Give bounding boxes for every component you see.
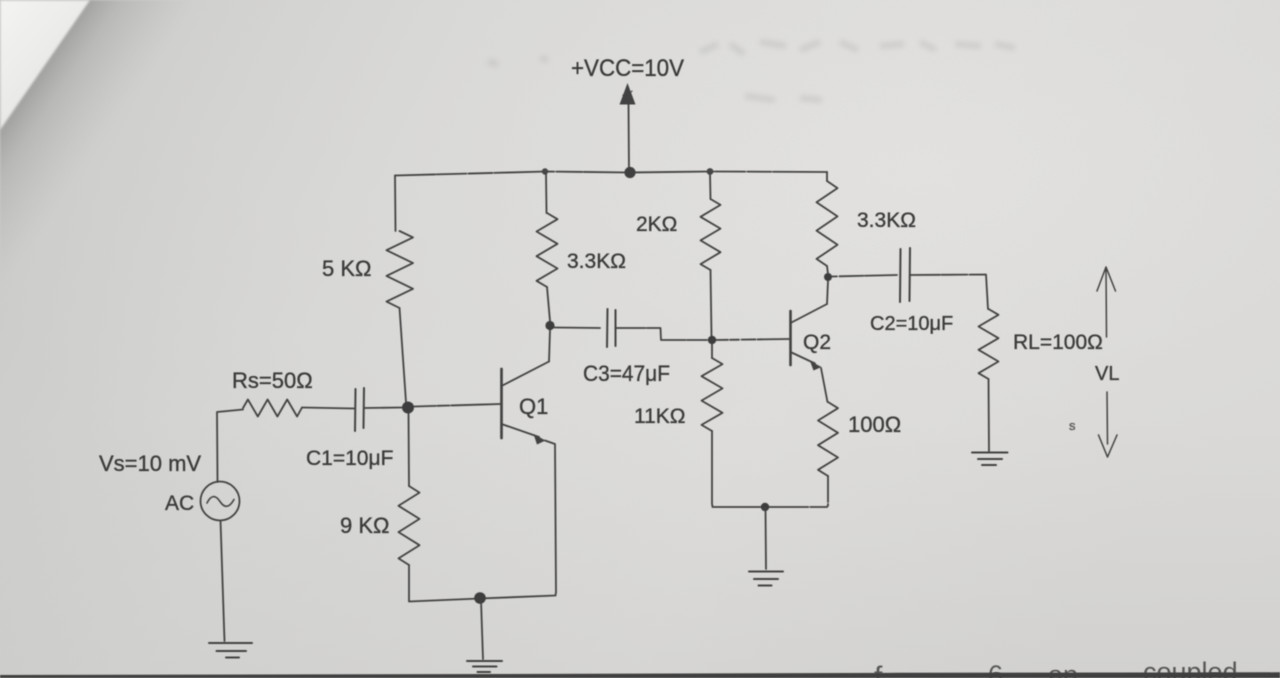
svg-text:Q1: Q1 — [519, 394, 548, 419]
node Q2 collector — [824, 273, 832, 281]
svg-text:3.3KΩ: 3.3KΩ — [857, 209, 916, 232]
resistor 5K leads — [395, 176, 406, 403]
svg-text:Q2: Q2 — [803, 331, 831, 354]
svg-text:s: s — [1069, 418, 1076, 433]
node vcc junction — [624, 167, 635, 178]
wire Q1 emitter down — [409, 441, 556, 602]
wire Q1 collector — [549, 330, 550, 362]
folded page corner top-left — [0, 0, 90, 130]
capacitor C2 plates — [900, 248, 910, 302]
wire stem mid ground — [765, 509, 768, 569]
resistor Rs=50 — [243, 400, 302, 417]
wire C2 right — [910, 275, 988, 310]
resistor 9K leads — [408, 413, 411, 601]
wire base Q2 — [716, 339, 789, 340]
svg-text:3.3KΩ: 3.3KΩ — [567, 250, 626, 273]
wire Q2 emitter to 100 ohm — [821, 368, 828, 402]
wire Q2 collector — [827, 281, 828, 304]
VL arrow down — [1099, 392, 1118, 457]
ground AC — [209, 643, 252, 658]
transistor Q1 — [502, 362, 550, 445]
wire base Q1 — [414, 404, 500, 407]
resistor 9K — [399, 486, 420, 565]
wire Rs to C1 — [302, 408, 355, 409]
resistor 11K — [702, 358, 723, 431]
wire 100 ohm bottom — [765, 476, 828, 507]
transistor Q2 — [791, 304, 828, 371]
svg-text:+VCC=10V: +VCC=10V — [571, 55, 684, 82]
resistor 100 ohm — [818, 402, 838, 476]
ground RL — [972, 453, 1008, 466]
capacitor C3 plates — [607, 309, 616, 347]
wire C3 right — [616, 328, 708, 340]
node base Q1 — [402, 402, 414, 414]
partial cut-off text bottom right: "coupled" — [874, 657, 1238, 678]
wire AC to ground — [221, 521, 225, 642]
resistor 3.3K left leads — [546, 173, 550, 321]
svg-text:RL=100Ω: RL=100Ω — [1013, 331, 1103, 354]
resistor 3.3K right leads — [827, 172, 828, 274]
svg-text:11KΩ: 11KΩ — [634, 405, 686, 428]
resistor 2K — [701, 199, 721, 270]
AC sine — [207, 497, 234, 507]
node divider2 — [708, 336, 716, 344]
AC source circle — [201, 482, 240, 521]
faint bleed-through text top — [488, 42, 1015, 100]
node emitter junction — [474, 592, 486, 604]
node Q1 collector — [545, 321, 554, 330]
wire RL bottom — [988, 379, 991, 451]
svg-text:2KΩ: 2KΩ — [636, 213, 677, 236]
wire stem to ground — [481, 600, 483, 659]
resistor 2K leads — [710, 173, 712, 336]
wire C1 to node — [364, 407, 402, 410]
VL arrow up — [1097, 267, 1116, 337]
svg-text:C2=10μF: C2=10μF — [870, 313, 953, 335]
resistor 5K — [387, 231, 414, 308]
svg-text:C1=10μF: C1=10μF — [306, 447, 393, 470]
wire C2 left — [832, 275, 897, 277]
bottom dark table edge band — [0, 672, 1280, 678]
wire top rail — [395, 172, 827, 176]
ground mid — [749, 572, 783, 586]
resistor 11K leads — [712, 344, 765, 507]
svg-text:9 KΩ: 9 KΩ — [340, 513, 389, 538]
svg-text:100Ω: 100Ω — [848, 412, 901, 437]
resistor RL — [979, 309, 999, 379]
svg-text:Rs=50Ω: Rs=50Ω — [232, 368, 313, 393]
wire C3 left — [555, 327, 601, 330]
svg-text:C3=47μF: C3=47μF — [583, 361, 670, 386]
node rail-left — [542, 168, 548, 174]
svg-text:VL: VL — [1095, 363, 1119, 385]
svg-text:AC: AC — [165, 492, 194, 515]
ground Q1 — [467, 661, 502, 672]
vcc arrow — [620, 83, 636, 171]
wire input corner to Rs — [217, 410, 243, 483]
corner fold shadow top-left — [0, 0, 220, 320]
svg-text:5 KΩ: 5 KΩ — [322, 256, 371, 281]
node rail-right — [707, 168, 714, 175]
svg-text:Vs=10 mV: Vs=10 mV — [99, 451, 201, 476]
node bottom mid — [761, 503, 769, 511]
resistor 3.3K left — [537, 213, 558, 287]
capacitor C1 plates — [355, 388, 364, 431]
resistor 3.3K right — [817, 181, 838, 266]
